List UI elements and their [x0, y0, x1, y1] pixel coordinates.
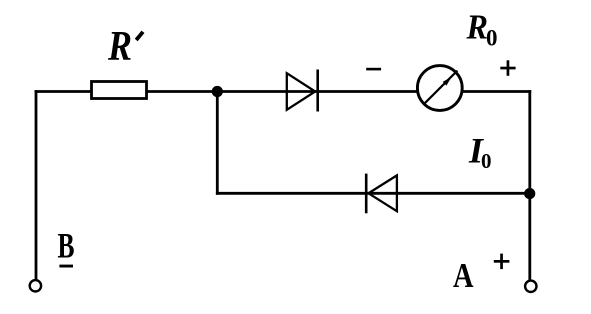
svg-text:A: A — [453, 256, 474, 295]
meter (galvanometer) — [417, 66, 462, 111]
label − (top minus) — [366, 68, 381, 71]
wire: left vertical (B terminal up to top-left corner) — [35, 90, 38, 280]
label − (under B) — [59, 265, 73, 268]
label R0 — [466, 7, 498, 50]
wire: middle vertical (node C down to lower branch) — [216, 92, 219, 195]
diode D2 (bottom, cathode left) — [366, 174, 397, 214]
label R' — [107, 24, 143, 70]
diode D1 (top, anode left) — [287, 70, 318, 112]
wire: top horizontal (through R' and D1 to meter) — [35, 90, 532, 93]
junction node C — [212, 86, 223, 97]
svg-text:B: B — [58, 225, 75, 265]
junction node D — [524, 188, 535, 199]
wire: right vertical (top-right corner down to A terminal) — [528, 90, 531, 280]
label + (top right) — [500, 60, 515, 76]
label + (bottom, near A) — [494, 254, 510, 270]
resistor R' — [92, 82, 147, 99]
terminal A — [525, 281, 536, 292]
svg-text:0: 0 — [481, 149, 492, 173]
label I0 — [468, 130, 491, 173]
terminal B — [30, 280, 41, 291]
svg-text:R: R — [466, 7, 488, 46]
svg-text:0: 0 — [486, 26, 498, 51]
svg-text:R: R — [107, 24, 132, 70]
wire: middle horizontal (through D2 to node D) — [216, 192, 530, 195]
